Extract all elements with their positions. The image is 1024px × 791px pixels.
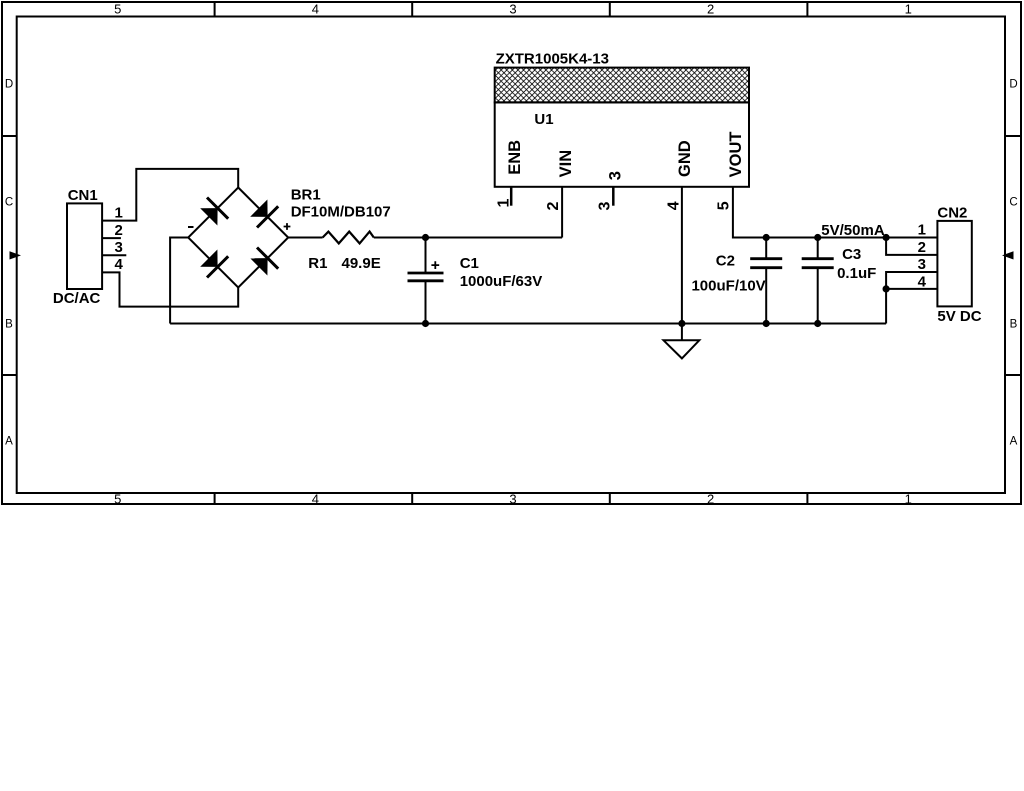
wire GND pin to rail xyxy=(681,187,683,324)
svg-text:1: 1 xyxy=(496,199,513,208)
BR1 minus sign xyxy=(188,226,194,228)
frame centre arrow right xyxy=(1002,251,1014,259)
svg-text:C1: C1 xyxy=(460,255,479,272)
U1 pin 3 stub xyxy=(612,187,615,206)
BR1 diode left-bottom xyxy=(200,250,217,267)
svg-text:2: 2 xyxy=(545,202,562,211)
ground symbol triangle xyxy=(664,340,700,358)
svg-text:4: 4 xyxy=(918,274,927,291)
junction dot C3 bottom xyxy=(814,320,821,327)
svg-text:2: 2 xyxy=(707,492,714,507)
svg-text:2: 2 xyxy=(114,222,122,239)
svg-text:5: 5 xyxy=(114,492,121,507)
frame column ticks top xyxy=(215,2,808,17)
svg-text:VOUT: VOUT xyxy=(727,132,745,178)
regulator U1 hatched band xyxy=(495,68,749,103)
svg-text:VIN: VIN xyxy=(557,150,575,178)
svg-text:3: 3 xyxy=(596,202,613,211)
wire VOUT pin to CN2 pin1 xyxy=(733,187,938,238)
svg-text:1: 1 xyxy=(114,204,122,221)
sheet frame inner border xyxy=(17,17,1005,494)
wire CN1 pin1 to bridge top xyxy=(102,169,238,221)
capacitor C1 top lead xyxy=(425,238,427,273)
svg-text:4: 4 xyxy=(312,2,319,17)
svg-text:4: 4 xyxy=(666,201,683,210)
sheet frame outer border xyxy=(2,2,1021,504)
svg-text:5: 5 xyxy=(114,2,121,17)
wire CN2 pin4 branch xyxy=(886,288,937,290)
svg-text:CN2: CN2 xyxy=(937,204,967,221)
CN1 pin 3 stub xyxy=(102,254,126,256)
wire CN2 pin2 branch xyxy=(886,238,937,255)
svg-text:100uF/10V: 100uF/10V xyxy=(691,278,765,295)
C3 top plate xyxy=(802,257,834,260)
junction dot C2 bottom xyxy=(763,320,770,327)
svg-text:3: 3 xyxy=(509,492,516,507)
svg-text:BR1: BR1 xyxy=(291,187,321,204)
frame row ticks left xyxy=(2,136,17,375)
C3 bottom plate xyxy=(802,266,834,269)
junction dot C2 top xyxy=(763,234,770,241)
svg-text:1: 1 xyxy=(918,222,926,239)
svg-text:49.9E: 49.9E xyxy=(342,255,381,272)
svg-text:A: A xyxy=(1010,436,1018,448)
svg-text:DC/AC: DC/AC xyxy=(53,290,101,307)
CN1 pin 2 stub xyxy=(102,237,121,239)
svg-text:2: 2 xyxy=(707,2,714,17)
connector CN2 xyxy=(937,221,971,307)
svg-text:DF10M/DB107: DF10M/DB107 xyxy=(291,203,391,220)
svg-text:4: 4 xyxy=(114,256,123,273)
svg-text:C3: C3 xyxy=(842,246,861,263)
junction dot C1 bottom xyxy=(422,320,429,327)
svg-text:B: B xyxy=(1010,319,1018,331)
svg-text:5: 5 xyxy=(716,201,733,210)
junction dot CN2 branch xyxy=(883,234,890,241)
svg-text:0.1uF: 0.1uF xyxy=(837,265,876,282)
frame column ticks bottom xyxy=(215,493,808,504)
wire CN1 pin4 to bridge bottom xyxy=(102,272,238,306)
svg-text:ZXTR1005K4-13: ZXTR1005K4-13 xyxy=(496,51,609,68)
wire bridge plus to resistor xyxy=(288,237,322,239)
capacitor C2 top lead xyxy=(765,238,767,259)
C3 bottom lead xyxy=(817,268,819,323)
svg-text:D: D xyxy=(1009,79,1017,91)
wire resistor to VIN xyxy=(374,237,562,239)
svg-text:3: 3 xyxy=(114,239,122,256)
svg-text:R1: R1 xyxy=(308,255,327,272)
ground rail bottom xyxy=(170,323,886,325)
svg-text:D: D xyxy=(5,79,13,91)
svg-text:3: 3 xyxy=(607,171,625,180)
C2 bottom lead xyxy=(765,268,767,323)
BR1 diode bottom-right xyxy=(250,258,267,275)
BR1 diode top-right xyxy=(250,200,267,217)
connector CN1 xyxy=(67,203,102,289)
wire VIN pin drop xyxy=(561,187,563,238)
wire CN2 pin3 to rail xyxy=(886,272,937,324)
svg-text:A: A xyxy=(5,436,13,448)
svg-text:C2: C2 xyxy=(716,253,735,270)
svg-text:2: 2 xyxy=(918,239,926,256)
svg-text:5V/50mA: 5V/50mA xyxy=(821,222,885,239)
regulator U1 body xyxy=(495,102,749,186)
C1 bottom plate xyxy=(408,279,444,282)
resistor R1 zigzag xyxy=(323,232,374,244)
C2 bottom plate xyxy=(750,266,782,269)
wire bridge minus to ground rail xyxy=(170,238,188,324)
junction dot C1 top xyxy=(422,234,429,241)
BR1 plus sign xyxy=(284,223,291,230)
BR1 diode left-top xyxy=(200,208,217,225)
bridge rectifier BR1 diamond xyxy=(188,188,288,288)
svg-text:4: 4 xyxy=(312,492,319,507)
C2 top plate xyxy=(750,257,782,260)
frame centre arrow left xyxy=(10,251,22,259)
svg-text:1: 1 xyxy=(905,492,912,507)
svg-text:GND: GND xyxy=(676,140,694,177)
svg-text:5V DC: 5V DC xyxy=(937,308,981,325)
svg-text:C: C xyxy=(1009,196,1017,208)
junction dot C3 top xyxy=(814,234,821,241)
svg-text:U1: U1 xyxy=(534,111,553,128)
svg-text:C: C xyxy=(5,196,13,208)
svg-text:B: B xyxy=(5,319,13,331)
C1 top plate xyxy=(408,272,444,275)
frame row ticks right xyxy=(1005,136,1021,375)
ground symbol stub xyxy=(681,324,683,341)
svg-text:3: 3 xyxy=(509,2,516,17)
junction dot GND rail xyxy=(678,320,685,327)
svg-text:1000uF/63V: 1000uF/63V xyxy=(460,273,543,290)
capacitor C3 top lead xyxy=(817,238,819,259)
svg-text:3: 3 xyxy=(918,256,926,273)
svg-text:ENB: ENB xyxy=(506,140,524,175)
U1 pin 1 stub xyxy=(510,187,513,206)
C1 polarity plus xyxy=(431,261,439,269)
svg-text:CN1: CN1 xyxy=(68,187,98,204)
junction dot CN2 pin4 xyxy=(883,285,890,292)
C1 bottom lead xyxy=(425,282,427,324)
svg-text:1: 1 xyxy=(905,2,912,17)
